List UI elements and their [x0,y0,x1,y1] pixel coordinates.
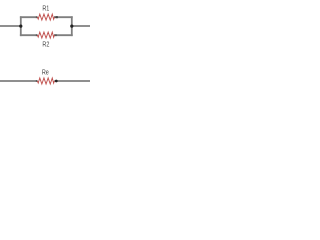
svg-text:R1: R1 [42,5,49,13]
svg-text:R2: R2 [42,41,49,49]
svg-text:Re: Re [42,69,49,77]
